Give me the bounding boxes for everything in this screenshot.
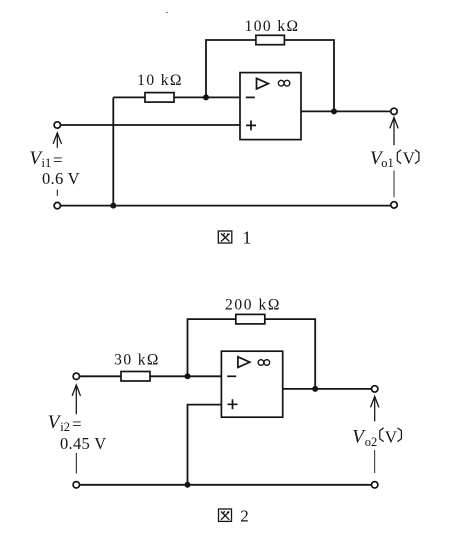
svg-text:i2: i2 [60,420,70,434]
svg-text:10 kΩ: 10 kΩ [137,72,183,89]
svg-text:i1: i1 [42,156,52,170]
wire: output fig2 [283,388,372,390]
node: ground rail junction fig1 [110,203,116,209]
terminal: input bottom fig2 [73,482,79,488]
resistor R1 10 kOhm fig1 [145,93,174,103]
caption: Zu 2 [219,509,232,521]
op-amp U1 fig1 [240,73,301,140]
wire: bottom rail fig1 [60,205,391,207]
node: junction 10k/feedback fig1 [203,94,209,100]
svg-text:0.6 V: 0.6 V [42,169,80,188]
wire stub below label fig1 [56,190,58,197]
svg-text:100 kΩ: 100 kΩ [245,18,300,35]
svg-text:0.45 V: 0.45 V [60,434,106,453]
wire: bottom rail fig2 [79,484,371,486]
wire stub below label to bottom terminal fig2 [374,450,376,473]
resistor R4 200 kOhm fig2 [236,314,265,324]
wire: output fig1 [301,110,391,112]
svg-text:V: V [385,427,398,446]
wire stub below label fig2 [75,453,77,474]
resistor R3 30 kOhm fig2 [121,372,150,382]
svg-text:V: V [403,149,416,168]
svg-text:200 kΩ: 200 kΩ [225,297,281,314]
terminal: input top fig2 [73,373,79,379]
arrow: input voltage fig1 [53,133,61,148]
svg-text:=: = [53,150,63,169]
node: junction 30k/feedback fig2 [185,373,191,379]
wire: left vertical to ground rail fig1 [112,97,114,205]
resistor R2 100 kOhm fig1 [256,35,285,44]
terminal: input bottom fig1 [54,202,60,208]
svg-text:30 kΩ: 30 kΩ [114,352,160,369]
arrow: input voltage fig2 [72,385,80,414]
arrow: output voltage fig2 [371,396,379,421]
svg-text:2: 2 [240,507,249,526]
svg-text:1: 1 [242,227,251,247]
wire: top-left terminal to + input fig1 [60,124,240,126]
svg-text:o2: o2 [365,435,378,449]
node: output junction fig1 [331,108,337,114]
op-amp U2 fig2 [221,351,282,417]
wire: feedback loop fig2 [188,319,316,389]
wire: feedback loop fig1 [206,40,334,111]
node: ground rail junction fig2 [185,482,191,488]
arrow: output voltage fig1 [390,117,398,145]
wire: 30k input run fig2 [79,375,221,377]
caption: Zu 1 [218,231,232,243]
scan speck [166,12,168,14]
terminal: output top fig1 [391,108,397,114]
terminal: output bottom fig2 [372,482,378,488]
terminal: input top fig1 [54,122,60,128]
svg-text:o1: o1 [381,156,394,170]
wire: + input to ground rail fig2 [188,405,222,485]
wire: 10k input run fig1 [113,96,240,98]
terminal: output top fig2 [372,386,378,392]
node: output junction fig2 [312,386,318,392]
wire stub below label to bottom terminal fig1 [393,171,395,198]
terminal: output bottom fig1 [391,202,397,208]
svg-text:=: = [72,415,82,434]
